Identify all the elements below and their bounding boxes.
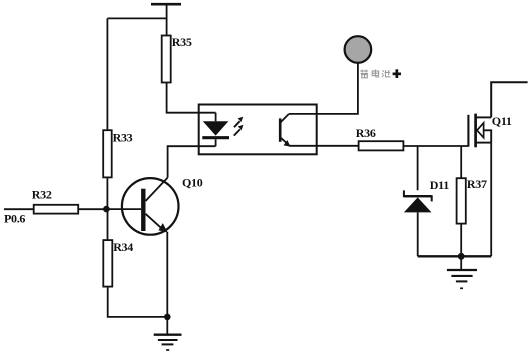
svg-text:R36: R36 xyxy=(356,126,376,140)
wire base node to Q10 xyxy=(106,208,141,210)
body arrow xyxy=(477,123,484,138)
wire down to D11 xyxy=(417,146,419,190)
LED cathode bar xyxy=(202,136,229,139)
svg-text:R35: R35 xyxy=(172,35,192,49)
battery terminal circle xyxy=(345,36,372,63)
mosfet Q11 gate bar xyxy=(467,115,469,147)
light arrow 1 xyxy=(234,121,240,127)
resistor R36 xyxy=(359,141,404,150)
resistor R32 xyxy=(34,205,78,214)
photo emitter diagonal xyxy=(280,137,289,145)
wire node to R34 xyxy=(107,209,109,240)
transistor Q10 circle xyxy=(122,178,179,235)
phototransistor bar xyxy=(279,118,282,141)
wire R35 to LED anode xyxy=(167,83,216,113)
Q10 emitter arrowhead xyxy=(158,223,167,233)
svg-text:R32: R32 xyxy=(32,187,52,201)
node dot xyxy=(103,206,110,213)
wire down to R33 xyxy=(106,18,108,130)
wire LED cathode to Q10 collector xyxy=(168,146,216,177)
LED cathode stub xyxy=(215,139,217,146)
resistor R34 xyxy=(103,240,112,287)
wire R37 to bottom rail xyxy=(460,224,462,257)
wire R34 to ground rail xyxy=(108,287,168,317)
wire collector to battery node xyxy=(289,63,358,114)
Q10 emitter diagonal xyxy=(146,214,165,231)
Q10 emitter wire down xyxy=(166,232,168,317)
optocoupler U-box xyxy=(199,105,317,155)
wire gate line to R37 xyxy=(460,146,462,178)
wire emitter to R36 xyxy=(289,145,359,147)
wire R36 to gate xyxy=(403,145,468,147)
svg-text:Q10: Q10 xyxy=(182,176,203,190)
wire P0.6 input xyxy=(4,208,34,210)
svg-text:D11: D11 xyxy=(430,178,449,192)
ground (right) xyxy=(460,256,462,269)
battery plus sign xyxy=(393,73,401,76)
Q10 base bar xyxy=(141,189,145,231)
light arrow 2 xyxy=(234,129,240,135)
resistor R33 xyxy=(103,130,112,177)
junction dot xyxy=(164,314,171,321)
body stub xyxy=(483,130,491,142)
svg-text:R37: R37 xyxy=(467,177,487,191)
drain wire up and right xyxy=(491,82,527,117)
wire branch to R33 column xyxy=(107,17,166,19)
svg-text:P0.6: P0.6 xyxy=(4,211,25,225)
resistor R37 xyxy=(457,178,466,223)
wire R33 to node xyxy=(106,177,108,209)
photo emitter arrowhead xyxy=(284,140,291,147)
battery label (gray chinese chars) xyxy=(360,70,390,78)
LED triangle xyxy=(203,121,229,135)
LED anode stub xyxy=(215,113,217,122)
mosfet Q11 channel bar xyxy=(474,114,477,148)
wire D11 to bottom rail xyxy=(417,212,419,256)
VCC power bar xyxy=(151,3,181,6)
svg-text:Q11: Q11 xyxy=(492,114,512,128)
svg-text:R34: R34 xyxy=(113,240,133,254)
source wire down xyxy=(490,143,492,257)
resistor R35 xyxy=(162,36,171,83)
drain stub xyxy=(477,116,492,118)
ground (left) xyxy=(166,317,168,334)
photo collector diagonal xyxy=(280,114,289,123)
junction dot xyxy=(458,253,465,260)
source stub xyxy=(477,142,492,144)
svg-text:R33: R33 xyxy=(113,131,133,145)
bottom rail xyxy=(418,255,492,257)
zener diode D11 xyxy=(404,190,432,201)
wire VCC to R35 xyxy=(166,4,168,35)
wire R32 to node xyxy=(78,208,106,210)
Q10 collector diagonal xyxy=(146,178,168,201)
